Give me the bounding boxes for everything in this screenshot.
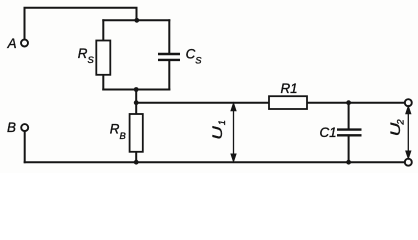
junction bottom wire at C1: [346, 160, 351, 165]
junction top of loop: [134, 18, 139, 23]
wire loop left upper: [102, 20, 104, 40]
wire loop bottom: [103, 89, 169, 91]
svg-text:C1: C1: [320, 125, 337, 140]
wire junction-to-RB: [135, 90, 137, 115]
wire middle horizontal: [136, 102, 405, 104]
wire loop top: [103, 19, 169, 21]
wire C1 upper: [348, 103, 350, 130]
svg-text:CS: CS: [186, 46, 203, 65]
svg-text:RB: RB: [110, 122, 126, 141]
svg-text:RS: RS: [78, 46, 95, 65]
svg-text:A: A: [7, 36, 17, 51]
svg-text:R1: R1: [281, 81, 298, 96]
junction middle wire at RB: [134, 100, 139, 105]
wire loop right lower: [168, 61, 170, 90]
wire bottom horizontal: [25, 161, 405, 163]
wire loop right upper: [168, 20, 170, 53]
arrow U1: [231, 104, 236, 162]
wire B-down: [24, 131, 26, 162]
capacitor CS: [158, 54, 180, 60]
arrow U2: [406, 107, 411, 159]
junction bottom wire at RB: [134, 160, 139, 165]
wire RB-to-bottom: [135, 152, 137, 162]
svg-text:2: 2: [395, 119, 406, 126]
resistor RB: [130, 114, 143, 152]
terminal out bottom: [405, 159, 412, 166]
capacitor C1: [337, 130, 362, 136]
terminal out top: [405, 99, 412, 106]
svg-text:1: 1: [216, 120, 227, 125]
terminal B: [21, 124, 28, 131]
resistor R1: [269, 96, 307, 109]
junction middle wire at C1: [346, 100, 351, 105]
wire loop left lower: [102, 75, 104, 90]
wire A-up-top: [25, 8, 137, 40]
junction bottom of loop: [134, 87, 139, 92]
wire C1 lower: [348, 136, 350, 162]
svg-text:B: B: [7, 120, 16, 135]
resistor RS: [96, 41, 110, 75]
terminal A: [21, 40, 28, 47]
svg-text:U: U: [210, 126, 225, 140]
